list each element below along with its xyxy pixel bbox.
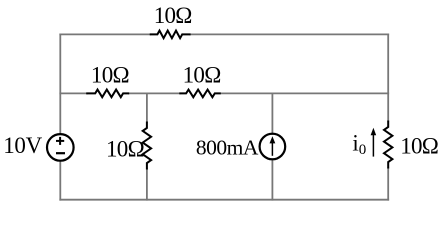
svg-text:i0: i0: [352, 131, 366, 158]
svg-text:10Ω: 10Ω: [106, 136, 144, 161]
resistor R2 (row2 left 10ohm): [86, 90, 129, 98]
wire middle branch lower: [146, 169, 148, 199]
wire 800mA branch lower: [271, 159, 273, 200]
svg-text:800mA: 800mA: [196, 136, 259, 160]
i0 current arrow: [371, 128, 377, 157]
wire 800mA branch upper: [271, 93, 273, 134]
wire top-right segment: [190, 33, 388, 35]
voltage source V1 (10V) circle: [47, 134, 74, 161]
wire middle branch upper: [146, 93, 148, 121]
resistor R1 (top 10ohm): [150, 31, 191, 39]
wire left rail lower: [59, 161, 61, 200]
svg-text:10V: 10V: [3, 133, 42, 158]
svg-text:10Ω: 10Ω: [183, 63, 221, 88]
V1 plus sign: [56, 137, 64, 145]
wire bottom: [60, 199, 388, 201]
wire row2 middle segment: [129, 92, 180, 94]
svg-text:10Ω: 10Ω: [400, 134, 438, 159]
wire row2 left segment: [60, 92, 87, 94]
svg-text:10Ω: 10Ω: [154, 3, 192, 28]
resistor R3 (row2 right 10ohm): [179, 90, 221, 98]
svg-text:10Ω: 10Ω: [91, 63, 129, 88]
wire top-left segment: [60, 33, 150, 35]
wire right rail lower: [387, 168, 389, 199]
resistor R5 (right vertical 10ohm): [384, 121, 392, 169]
wire row2 right segment: [221, 92, 389, 94]
I1 arrow: [270, 136, 276, 156]
resistor R4 (middle vertical 10ohm): [143, 122, 151, 170]
wire right rail upper: [387, 34, 389, 120]
wire left rail upper: [59, 34, 61, 133]
V1 minus sign: [56, 152, 65, 154]
current source I1 (800mA) circle: [260, 134, 286, 160]
